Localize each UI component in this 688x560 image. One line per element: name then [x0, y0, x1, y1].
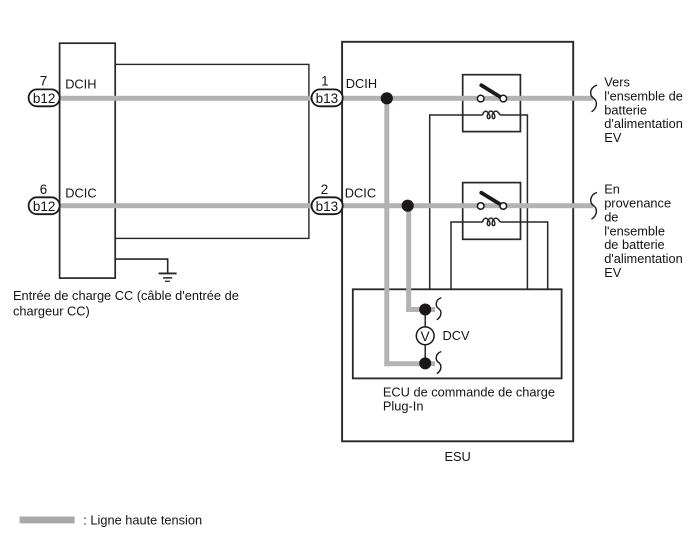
- wire DCIH branch down to ECU: [384, 98, 389, 366]
- node DCV top: [419, 304, 431, 316]
- svg-text:batterie: batterie: [604, 102, 647, 117]
- svg-text:b13: b13: [316, 199, 339, 214]
- pin oval b13 row1: [312, 89, 343, 106]
- svg-text:de batterie: de batterie: [604, 237, 664, 252]
- relay K2 switch arm: [481, 193, 502, 206]
- svg-text:ESU: ESU: [444, 449, 470, 464]
- voltmeter V circle: [416, 327, 434, 345]
- ESU box: [342, 42, 573, 442]
- svg-text:En: En: [604, 181, 620, 196]
- svg-text:EV: EV: [604, 130, 622, 145]
- wire DCIC high-voltage row 2: [59, 203, 593, 208]
- svg-text:DCV: DCV: [443, 328, 470, 343]
- svg-text:l'ensemble: l'ensemble: [604, 223, 665, 238]
- relay K2 switch contacts: [477, 203, 484, 210]
- ECU box (ECU de commande de charge Plug-In): [353, 289, 562, 378]
- svg-text:l'ensemble de: l'ensemble de: [604, 88, 683, 103]
- wire DCIH high-voltage row 1: [59, 96, 593, 101]
- ground stub wire from connector: [115, 259, 168, 273]
- svg-text:DCIH: DCIH: [65, 77, 96, 92]
- junction node row2: [402, 200, 414, 212]
- svg-text:: Ligne haute tension: : Ligne haute tension: [83, 513, 202, 528]
- svg-text:d'alimentation: d'alimentation: [604, 116, 683, 131]
- svg-text:b12: b12: [33, 199, 56, 214]
- pin oval b13 row2: [312, 197, 343, 214]
- break squiggle wire2 right: [591, 192, 597, 219]
- break squiggle at DCV bottom node: [436, 352, 441, 374]
- relay K2 coil lead left + vertical to ECU: [451, 222, 483, 289]
- pin oval b12 row2: [29, 197, 60, 214]
- connector box b12 (Entrée de charge CC): [60, 43, 116, 278]
- relay K1 coil: [483, 111, 501, 118]
- svg-text:2: 2: [321, 182, 328, 197]
- svg-text:Plug-In: Plug-In: [383, 399, 424, 414]
- relay K2 box: [463, 183, 521, 240]
- relay K1 switch arm: [481, 85, 502, 98]
- break squiggle at DCV top node: [436, 298, 441, 320]
- relay K1 box: [463, 75, 521, 132]
- svg-text:chargeur CC): chargeur CC): [13, 303, 90, 318]
- relay K2 coil: [483, 218, 501, 225]
- DCV meter link line: [424, 310, 426, 364]
- svg-text:provenance: provenance: [604, 195, 671, 210]
- svg-text:V: V: [420, 329, 430, 344]
- svg-text:b13: b13: [316, 91, 339, 106]
- svg-text:DCIH: DCIH: [346, 76, 377, 91]
- svg-text:1: 1: [321, 74, 328, 89]
- wire DCIC branch horizontal to node: [406, 307, 435, 312]
- wire DCIH branch horizontal to node: [384, 361, 435, 366]
- ground symbol: [159, 273, 177, 281]
- junction node row1: [381, 92, 393, 104]
- svg-text:b12: b12: [33, 91, 56, 106]
- svg-text:d'alimentation: d'alimentation: [604, 251, 683, 266]
- svg-text:EV: EV: [604, 265, 622, 280]
- node DCV bottom: [419, 357, 431, 369]
- legend high-voltage line sample: [20, 517, 75, 524]
- svg-text:Entrée de charge CC (câble d'e: Entrée de charge CC (câble d'entrée de: [13, 288, 239, 303]
- svg-text:de: de: [604, 209, 618, 224]
- relay K2 coil lead right + vertical to ECU: [500, 222, 547, 289]
- svg-text:DCIC: DCIC: [65, 185, 96, 200]
- svg-text:DCIC: DCIC: [345, 185, 376, 200]
- svg-text:6: 6: [40, 182, 47, 197]
- break squiggle wire1 right: [591, 85, 597, 112]
- relay K1 coil lead right + vertical to ECU: [500, 115, 527, 289]
- svg-text:7: 7: [40, 74, 47, 89]
- relay K1 coil lead left + vertical to ECU: [430, 115, 483, 289]
- pin oval b12 row1: [29, 89, 60, 106]
- shield box around wires: [115, 64, 309, 238]
- relay K1 switch contacts: [477, 95, 484, 102]
- svg-text:ECU de commande de charge: ECU de commande de charge: [383, 385, 555, 400]
- svg-text:Vers: Vers: [604, 75, 630, 90]
- wire DCIC branch down to ECU: [406, 206, 411, 313]
